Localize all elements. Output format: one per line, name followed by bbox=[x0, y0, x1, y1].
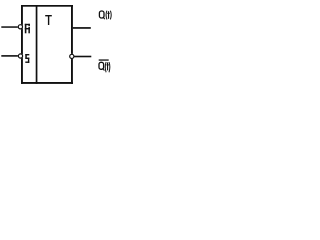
wire Qbar output bbox=[74, 56, 91, 58]
input section divider line bbox=[36, 5, 38, 84]
wire S input bbox=[1, 55, 19, 57]
net label Qbar(t) bbox=[99, 62, 110, 72]
pin label R bbox=[25, 24, 30, 34]
wire Q output bbox=[73, 27, 91, 29]
inversion bubble S bbox=[18, 53, 23, 58]
overline of net label Qbar(t) bbox=[99, 59, 109, 60]
flip-flop T body bbox=[21, 5, 73, 84]
wire R input bbox=[1, 26, 19, 28]
net label Q(t) bbox=[99, 11, 111, 20]
pin label S bbox=[25, 54, 29, 63]
inversion bubble R bbox=[18, 24, 23, 29]
inversion bubble Qbar bbox=[69, 54, 74, 59]
label T bbox=[45, 15, 52, 25]
